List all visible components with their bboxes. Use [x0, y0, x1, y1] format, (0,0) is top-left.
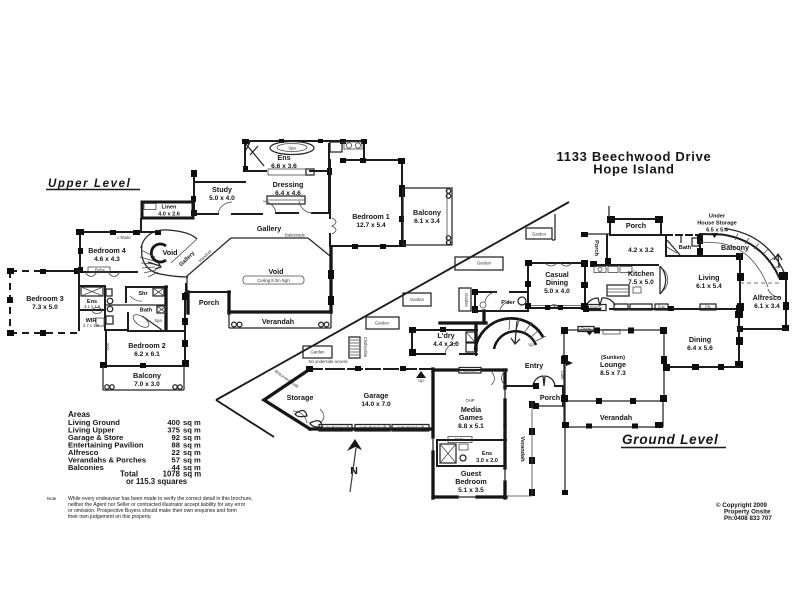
balcony curve [700, 234, 780, 287]
north arrow [347, 439, 362, 492]
void stair upper (curved) [140, 230, 197, 277]
entry porch [506, 376, 563, 406]
svg-text:House Storage: House Storage [697, 221, 736, 227]
wall dressing east [328, 144, 330, 213]
room Ens upper: walls [242, 139, 367, 172]
storage interior doors [293, 409, 324, 423]
svg-text:Bedroom 3: Bedroom 3 [26, 294, 64, 303]
svg-text:Bedroom 1: Bedroom 1 [352, 212, 390, 221]
svg-text:Spa: Spa [288, 146, 296, 151]
main north wall [610, 234, 666, 236]
svg-text:Living: Living [698, 273, 719, 282]
svg-text:Balconies: Balconies [68, 463, 104, 472]
svg-text:Balcony: Balcony [721, 243, 749, 252]
svg-text:6.4 x 4.6: 6.4 x 4.6 [275, 190, 301, 197]
svg-text:Garden: Garden [375, 321, 390, 326]
spa bath oval [270, 142, 314, 155]
wall ens/dressing divider [246, 170, 266, 172]
svg-text:Ph:0408 833 707: Ph:0408 833 707 [724, 515, 772, 522]
up triangle to garage [416, 371, 426, 378]
svg-text:14.0 x 7.0: 14.0 x 7.0 [361, 401, 391, 408]
svg-text:L'dry: L'dry [437, 331, 454, 340]
shower corner ens [246, 142, 264, 166]
svg-text:6.1 x 3.4: 6.1 x 3.4 [414, 218, 440, 225]
svg-text:Void: Void [268, 267, 283, 276]
svg-text:Auto Panel Lift: Auto Panel Lift [397, 425, 425, 430]
room Porch upper [188, 292, 230, 313]
svg-text:Garage: Garage [364, 391, 389, 400]
svg-text:Bedroom: Bedroom [455, 477, 487, 486]
svg-text:Bedroom 2: Bedroom 2 [128, 341, 166, 350]
svg-text:Robe: Robe [455, 437, 466, 442]
main north porch [581, 206, 663, 237]
garden terraces along diagonal [303, 214, 555, 358]
svg-text:Auto Panel Lift: Auto Panel Lift [359, 425, 387, 430]
svg-text:6.4 x 5.6: 6.4 x 5.6 [687, 345, 713, 352]
gallery balustrade diagonal [187, 238, 231, 292]
svg-text:Linen: Linen [162, 205, 177, 211]
room Bedroom 1 [330, 158, 406, 249]
svg-text:5.0 x 4.0: 5.0 x 4.0 [544, 288, 570, 295]
svg-text:Gallery: Gallery [257, 224, 281, 233]
svg-text:4.4 x 3.0: 4.4 x 3.0 [433, 341, 459, 348]
svg-text:5.0 x 4.0: 5.0 x 4.0 [209, 195, 235, 202]
svg-text:Up: Up [528, 342, 534, 347]
svg-text:Porch: Porch [626, 221, 646, 230]
storage gate doors [295, 410, 322, 427]
void east wall [329, 247, 332, 312]
title upper level [46, 149, 726, 448]
ens3/wir block [79, 271, 105, 330]
verandah east of media [505, 401, 535, 496]
svg-text:Bath: Bath [140, 308, 153, 314]
svg-text:Verandah: Verandah [600, 413, 632, 422]
copyright [716, 502, 772, 522]
corridor fixtures [106, 289, 112, 296]
svg-text:4.6 x 4.3: 4.6 x 4.3 [94, 256, 120, 263]
media wing [433, 368, 506, 499]
svg-text:Kitchen: Kitchen [628, 269, 654, 278]
svg-text:their own judgement on this pr: their own judgement on this property. [68, 514, 151, 520]
east wall living [739, 254, 741, 310]
svg-text:No underside access: No underside access [308, 359, 347, 364]
svg-text:Nds: Nds [105, 343, 110, 350]
note paragraph [47, 496, 253, 520]
clothesline [349, 337, 368, 358]
svg-text:Shr: Shr [138, 291, 148, 297]
room Linen [142, 202, 193, 218]
svg-text:Entry: Entry [525, 361, 543, 370]
verandah upper [229, 312, 331, 328]
verandah ground [562, 402, 663, 429]
svg-text:Screen: Screen [463, 368, 477, 373]
porch west of lounge [533, 383, 564, 409]
guest ens [437, 437, 506, 467]
lounge [561, 327, 667, 405]
svg-text:6.1 x 5.4: 6.1 x 5.4 [696, 283, 722, 290]
powder room [472, 289, 528, 313]
svg-text:7.5 x 5.0: 7.5 x 5.0 [628, 279, 654, 286]
svg-text:Porch: Porch [540, 393, 560, 402]
svg-text:Garden: Garden [311, 350, 326, 355]
garage door panels [319, 425, 429, 432]
east outer wall + alfresco [737, 272, 789, 332]
svg-text:Ply: Ply [705, 305, 712, 310]
svg-text:Garden: Garden [477, 261, 492, 266]
svg-text:3.1 x 1.9: 3.1 x 1.9 [84, 304, 101, 309]
wall study west + north [193, 171, 195, 215]
svg-text:Balustrade: Balustrade [285, 233, 306, 238]
kitchen [590, 261, 658, 296]
gate line east [562, 355, 568, 361]
svg-text:Dining: Dining [546, 278, 568, 287]
svg-text:Hope Island: Hope Island [593, 162, 674, 177]
svg-text:Void: Void [162, 248, 177, 257]
svg-text:P'der: P'der [501, 300, 516, 306]
svg-text:Clothesline: Clothesline [363, 337, 368, 358]
balcony bedroom2 [103, 366, 184, 390]
svg-text:8.5 x 7.3: 8.5 x 7.3 [600, 370, 626, 377]
kitchen south wall [552, 298, 743, 312]
svg-text:Alfresco: Alfresco [753, 293, 782, 302]
svg-text:or 115.3 squares: or 115.3 squares [126, 477, 188, 486]
svg-text:Robe: Robe [95, 268, 106, 273]
svg-text:Verandah: Verandah [262, 317, 294, 326]
svg-text:7.3 x 5.0: 7.3 x 5.0 [32, 304, 58, 311]
svg-text:L'shute: L'shute [117, 235, 131, 240]
svg-text:7.0 x 3.0: 7.0 x 3.0 [134, 381, 160, 388]
svg-text:Porch: Porch [199, 298, 219, 307]
svg-text:OHP: OHP [465, 398, 474, 403]
svg-text:Dining: Dining [689, 335, 711, 344]
svg-text:Dressing: Dressing [273, 180, 304, 189]
curved stair ne [724, 229, 786, 298]
casual dining [525, 260, 588, 310]
bedroom2 walls [100, 293, 189, 368]
svg-text:Ens: Ens [482, 451, 492, 457]
svg-text:6.1 x 3.4: 6.1 x 3.4 [754, 303, 780, 310]
svg-text:Storage: Storage [287, 393, 314, 402]
svg-text:Bedroom 4: Bedroom 4 [88, 246, 126, 255]
gallery/porch west wall [185, 284, 187, 292]
svg-text:Balcony: Balcony [413, 208, 441, 217]
svg-text:6.2 x 6.1: 6.2 x 6.1 [134, 351, 160, 358]
thick L wall west of spiral [440, 321, 486, 324]
spiral stair entry [475, 317, 546, 350]
svg-text:Lounge: Lounge [600, 360, 626, 369]
wall linen to bedroom4 [140, 219, 142, 232]
svg-text:Garden: Garden [410, 297, 425, 302]
svg-text:4.2 x 3.2: 4.2 x 3.2 [628, 247, 654, 254]
wc ens [330, 142, 342, 152]
areas table [68, 410, 201, 486]
ldry room [409, 323, 477, 356]
svg-text:Under: Under [709, 214, 726, 220]
svg-text:Spa: Spa [154, 318, 162, 323]
svg-text:Ceiling 8.3m high: Ceiling 8.3m high [257, 278, 290, 283]
svg-text:Games: Games [459, 413, 483, 422]
svg-text:5.1 x 3.5: 5.1 x 3.5 [458, 487, 484, 494]
svg-text:Up: Up [418, 378, 424, 383]
svg-text:Study: Study [212, 185, 232, 194]
svg-text:Ens: Ens [277, 153, 290, 162]
robe bedroom4 [88, 267, 110, 272]
svg-text:8.8 x 5.1: 8.8 x 5.1 [458, 423, 484, 430]
svg-text:Ground Level: Ground Level [622, 432, 719, 447]
4.2x3.2 room [606, 235, 608, 265]
svg-text:Verandah: Verandah [519, 436, 525, 462]
svg-text:2.7 x 1.9: 2.7 x 1.9 [83, 323, 100, 328]
svg-text:Balcony: Balcony [133, 371, 161, 380]
svg-text:Fge: Fge [658, 305, 666, 310]
living/balcony divider [700, 255, 740, 257]
room Bedroom 4 walls [76, 229, 161, 273]
diagonal site boundary [216, 202, 569, 400]
svg-text:Auto Panel Lift: Auto Panel Lift [322, 425, 350, 430]
svg-text:3.0 x 2.0: 3.0 x 2.0 [476, 458, 498, 464]
storage wing walls [264, 366, 432, 429]
svg-text:N: N [350, 465, 358, 477]
dressing cabinets [268, 169, 306, 175]
svg-text:Garden: Garden [532, 232, 547, 237]
gallery balustrade horizontal [231, 237, 308, 239]
svg-text:Note: Note [47, 496, 57, 501]
bath ground [666, 235, 703, 256]
breakfast bay semicircle [660, 266, 666, 294]
svg-text:Bath: Bath [679, 245, 692, 251]
svg-text:Upper Level: Upper Level [48, 178, 131, 190]
svg-text:Porch: Porch [593, 240, 599, 256]
svg-text:4.0 x 2.6: 4.0 x 2.6 [158, 212, 180, 218]
gallery south wall (study/dressing bottom) [194, 213, 218, 215]
shr/bath block [106, 287, 167, 330]
svg-text:Drain: Drain [581, 327, 592, 332]
svg-text:Garden: Garden [464, 293, 469, 308]
balcony upper right [403, 188, 452, 245]
svg-text:Pantry: Pantry [590, 305, 603, 310]
room Bedroom 3 (dashed walls) [10, 271, 79, 333]
vanity ens [344, 142, 362, 149]
svg-text:12.7 x 5.4: 12.7 x 5.4 [356, 222, 386, 229]
